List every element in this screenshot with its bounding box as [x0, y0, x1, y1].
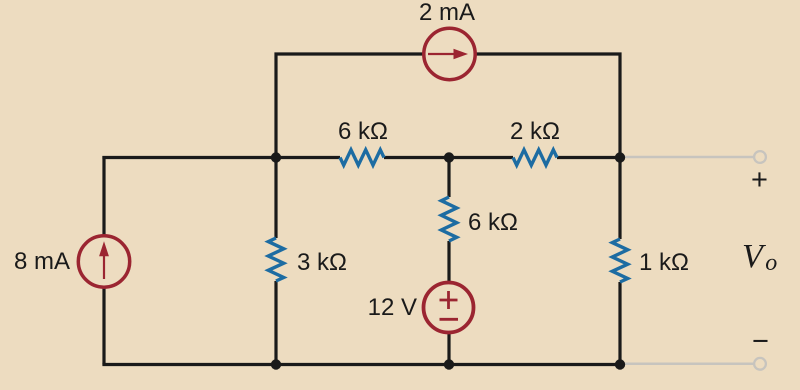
svg-text:6 kΩ: 6 kΩ — [338, 118, 388, 145]
svg-text:2 mA: 2 mA — [419, 0, 475, 26]
svg-text:6 kΩ: 6 kΩ — [468, 209, 518, 236]
svg-text:8 mA: 8 mA — [14, 248, 70, 275]
svg-text:3 kΩ: 3 kΩ — [297, 249, 347, 276]
svg-text:12 V: 12 V — [368, 294, 417, 321]
svg-text:1 kΩ: 1 kΩ — [639, 249, 689, 276]
svg-text:2 kΩ: 2 kΩ — [510, 118, 560, 145]
svg-text:−: − — [752, 326, 769, 358]
svg-text:+: + — [751, 164, 768, 196]
